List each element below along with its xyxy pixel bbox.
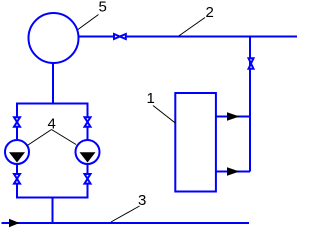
pump P2 (right)	[76, 140, 100, 164]
svg-text:1: 1	[147, 90, 155, 107]
arrowhead lower outlet	[227, 167, 240, 175]
valve V1 on top pipe	[114, 34, 126, 39]
valve V4 (upper right branch)	[85, 117, 91, 127]
leaders for label 4	[27, 130, 52, 147]
leader for label 1	[153, 106, 175, 124]
svg-text:4: 4	[48, 116, 56, 133]
wire: top supply pipe (node 2)	[79, 36, 298, 38]
pump group frame (parallel branches)	[17, 104, 88, 198]
heat exchanger U1 (rectangle, label 1)	[175, 93, 216, 192]
wire: exchanger lower outlet	[216, 171, 250, 173]
valve V3 (upper left branch)	[14, 117, 20, 127]
arrowhead upper outlet	[227, 112, 240, 120]
valve V6 (lower right branch)	[85, 174, 91, 184]
pump P1 (left)	[5, 140, 29, 164]
svg-text:3: 3	[138, 192, 146, 209]
tank 5 (expansion vessel circle)	[29, 13, 79, 63]
flow arrowhead on return pipe	[9, 219, 20, 228]
svg-text:5: 5	[99, 0, 107, 16]
valve V5 (lower left branch)	[14, 174, 20, 184]
leader for label 5	[78, 15, 99, 30]
svg-text:2: 2	[206, 4, 214, 21]
wire: exchanger upper outlet	[216, 116, 250, 118]
wire: tank drop to pump header	[52, 63, 54, 105]
leader for label 3	[111, 206, 140, 222]
wire: pump group drop to return pipe	[52, 198, 54, 225]
valve V2 on right riser	[249, 58, 254, 68]
wire: right vertical riser	[249, 37, 251, 172]
wire: bottom return pipe (node 3)	[2, 222, 250, 224]
leader for label 2	[179, 18, 205, 37]
